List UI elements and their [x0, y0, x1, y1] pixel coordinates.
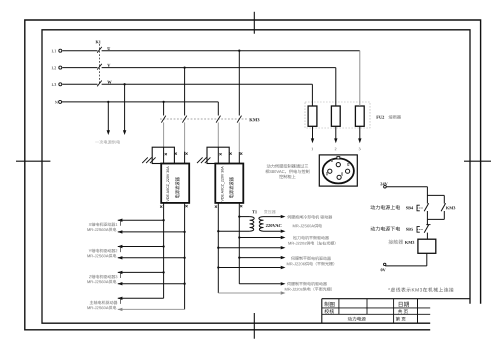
connector pin 4: [337, 175, 341, 179]
wire aux feed 2a: [239, 237, 280, 239]
svg-text:熔断器: 熔断器: [388, 114, 401, 121]
tick 3: [120, 272, 122, 278]
node L1 to filter2: [238, 50, 240, 52]
svg-text:动力电源上电: 动力电源上电: [370, 204, 400, 211]
transformer T1 primary winding: [250, 217, 255, 232]
svg-text:电源滤波器: 电源滤波器: [174, 176, 181, 198]
node transformer primary bottom: [217, 230, 219, 232]
centering mark bottom: [253, 313, 255, 339]
KM3 contact blade: [182, 116, 186, 123]
contactor coil KM3: [418, 239, 436, 253]
svg-text:KM3: KM3: [249, 117, 260, 122]
connector circle: [323, 158, 354, 183]
contactor KM3 main contacts linkage: [160, 118, 248, 120]
svg-text:电源滤波器: 电源滤波器: [228, 176, 235, 198]
connector pin 3: [346, 169, 350, 173]
svg-text:VDE A0CZ_220V 30A: VDE A0CZ_220V 30A: [166, 166, 170, 202]
svg-text:W: W: [107, 80, 112, 85]
wire secondary top: [264, 216, 281, 218]
svg-text:MR-J2S60A供电: MR-J2S60A供电: [87, 304, 117, 310]
tick 4: [120, 298, 122, 304]
svg-text:伺服抱闸冷却电机 驱动器: 伺服抱闸冷却电机 驱动器: [287, 214, 332, 220]
svg-text:220VAC: 220VAC: [266, 223, 282, 228]
terminal marks bottom U1 filter1: [160, 206, 162, 208]
svg-text:SB5: SB5: [406, 227, 413, 232]
KM3 contact blade: [161, 116, 165, 123]
wire L1 to fuse3: [359, 51, 361, 106]
connector key notch: [337, 157, 340, 159]
wire 24V feed: [386, 186, 427, 188]
wire L1: [62, 50, 97, 52]
wire drive feed 3a: [118, 271, 164, 273]
wire L2: [62, 67, 97, 69]
wire drive feed 1b: [118, 231, 185, 233]
wire aux feed 3b: [218, 267, 280, 269]
wire L2 to fuse2: [335, 68, 337, 106]
svg-text:MR-J220s供电（平衡光栅）: MR-J220s供电（平衡光栅）: [284, 286, 334, 292]
wire to SB5: [426, 219, 428, 225]
svg-text:控制柜上: 控制柜上: [279, 173, 296, 180]
fuse FU2-1: [308, 106, 317, 126]
svg-text:3: 3: [359, 147, 361, 151]
svg-text:共 页: 共 页: [398, 308, 409, 315]
wire L1 drop filter2: [238, 51, 240, 116]
wire KM3 branch top: [427, 194, 444, 196]
svg-text:KM3: KM3: [405, 240, 415, 245]
fuse FU2-3: [355, 106, 364, 126]
svg-text:FU2: FU2: [376, 115, 384, 120]
fuse group dashed box: [305, 102, 370, 128]
wire gray filter2 N: [217, 122, 219, 147]
wire control main drop: [426, 187, 428, 204]
wire gray filter1 L: [184, 122, 186, 151]
svg-text:制图: 制图: [324, 300, 335, 308]
inner border frame: [42, 30, 470, 323]
wire primary tap 2: [124, 84, 126, 130]
wire gray filter2 L: [238, 122, 240, 151]
wire coil to 0V: [426, 253, 428, 266]
node N to filter1: [162, 101, 164, 103]
KM3 contact blade: [237, 116, 241, 123]
svg-text:校核: 校核: [324, 308, 334, 315]
svg-text:N: N: [55, 100, 58, 105]
svg-text:伺服制平衡电机驱动器: 伺服制平衡电机驱动器: [291, 255, 331, 261]
svg-text:MR-J2206供电（平衡光栅）: MR-J2206供电（平衡光栅）: [286, 260, 336, 266]
svg-text:KM3: KM3: [446, 205, 456, 210]
node L2 to filter1: [183, 66, 185, 68]
filter box U1 filter1: [161, 164, 189, 203]
svg-text:L2: L2: [51, 65, 56, 70]
centering mark top: [253, 12, 255, 34]
svg-text:MR-J220s供电（左右光栅）: MR-J220s供电（左右光栅）: [288, 240, 338, 246]
wire fuse3 output: [359, 126, 361, 139]
svg-text:K1: K1: [95, 39, 100, 44]
transformer T1 secondary winding: [259, 217, 264, 232]
ground U1 filter1: [142, 157, 148, 163]
svg-text:松刀电机平衡驱动器: 松刀电机平衡驱动器: [293, 234, 329, 240]
terminal marks top U2 filter2: [219, 153, 221, 155]
outer border frame: [25, 20, 481, 330]
wire L into filter U2 filter2: [238, 152, 240, 164]
wire transformer primary top: [239, 216, 249, 218]
wire filter2 L output: [238, 203, 240, 284]
wire SB4 lower: [426, 211, 428, 219]
wire drive feed 2b: [118, 257, 185, 259]
node transformer primary top: [238, 215, 240, 217]
svg-text:VDE A0CZ_220V 30A: VDE A0CZ_220V 30A: [220, 166, 224, 202]
svg-text:伺服制平衡电机驱动器: 伺服制平衡电机驱动器: [287, 280, 327, 286]
wire filter2 N output: [217, 203, 219, 293]
wire N drop filter1: [163, 102, 165, 116]
wire L into filter U1 filter1: [184, 152, 186, 164]
wire SB5 to coil: [426, 233, 428, 240]
svg-text:0V: 0V: [380, 267, 386, 272]
ground U2 filter2: [197, 157, 203, 163]
svg-text:2: 2: [335, 147, 337, 151]
wire aux feed 4a: [239, 283, 280, 285]
svg-text:一次电源供电: 一次电源供电: [95, 139, 121, 146]
tick 2: [120, 247, 122, 253]
svg-text:MR-J2S60A供电: MR-J2S60A供电: [87, 226, 117, 232]
wire transformer primary bottom: [218, 230, 249, 232]
KM3 contact blade: [216, 116, 220, 123]
wire drive feed 1a: [118, 219, 164, 221]
wire N corner filter2: [217, 102, 219, 116]
svg-text:日期: 日期: [398, 301, 410, 308]
node L3 tap: [123, 83, 125, 85]
tick 1: [120, 220, 122, 226]
wire fuse2 output: [335, 126, 337, 139]
wire drive feed 3b: [118, 283, 185, 285]
svg-text:MR-J2S60A供电: MR-J2S60A供电: [292, 222, 322, 228]
fuse FU2-2: [331, 106, 340, 126]
svg-text:动力电源下电: 动力电源下电: [370, 226, 400, 233]
centering mark left: [16, 160, 50, 162]
svg-text:接触器: 接触器: [388, 239, 403, 246]
terminal marks top U1 filter1: [165, 153, 167, 155]
wire drive feed 4b: [118, 308, 185, 310]
wire KM3 branch bottom: [443, 211, 445, 219]
wire through terminal block U2 filter2: [217, 147, 219, 163]
wire aux feed 2b: [218, 247, 280, 249]
filter box U2 filter2: [215, 164, 243, 203]
terminal marks bottom U2 filter2: [215, 206, 217, 208]
connector socket box: [319, 155, 357, 186]
wire gray filter1 N: [163, 122, 165, 147]
terminal 0V: [384, 263, 386, 265]
terminal block U1 filter1: [152, 147, 174, 163]
wire filter1 L output: [184, 203, 186, 309]
wire N: [62, 101, 219, 103]
wire drive feed 2a: [118, 246, 164, 248]
svg-text:MR-J2S60A供电: MR-J2S60A供电: [87, 252, 117, 258]
centering mark right: [464, 160, 491, 162]
connector pin 1: [336, 163, 340, 167]
wire through terminal block U1 filter1: [163, 147, 165, 163]
wire aux feed 3a: [239, 257, 280, 259]
wire L3: [62, 83, 97, 85]
wire aux feed 4b: [218, 292, 280, 294]
svg-text:变压器: 变压器: [264, 208, 276, 214]
wire filter1 N output: [163, 203, 165, 298]
wire L2 drop filter1: [184, 68, 186, 116]
node N tap: [107, 101, 109, 103]
svg-text:1: 1: [311, 147, 313, 151]
svg-text:L3: L3: [51, 82, 56, 87]
svg-text:T1: T1: [252, 209, 257, 214]
svg-text:SB4: SB4: [406, 205, 414, 210]
wire primary tap 1: [107, 102, 109, 131]
svg-text:L1: L1: [51, 48, 56, 53]
terminal block U2 filter2: [207, 147, 229, 163]
connector pin 2: [328, 169, 332, 173]
svg-text:MR-J2S60A供电: MR-J2S60A供电: [87, 278, 117, 284]
svg-text:第 页: 第 页: [395, 316, 406, 323]
svg-text:动力电源: 动力电源: [347, 316, 366, 323]
wire L3 to fuse1: [311, 84, 313, 106]
wire secondary bottom: [264, 230, 281, 232]
wire drive feed 4a: [118, 297, 164, 299]
title block table: [322, 298, 470, 300]
wire fuse1 output: [312, 126, 314, 139]
contact KM3 aux: [441, 203, 446, 211]
